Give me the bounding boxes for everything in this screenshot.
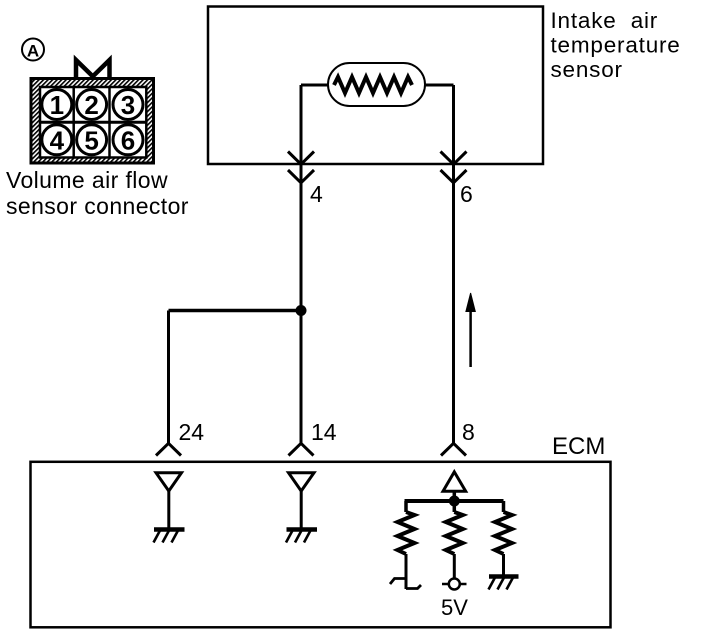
svg-text:temperature: temperature	[551, 33, 681, 58]
resistor R2 (middle)	[446, 501, 463, 579]
squiggle: to internal circuit	[390, 579, 421, 589]
svg-text:2: 2	[84, 90, 98, 120]
svg-text:6: 6	[460, 181, 473, 207]
connector shell (hatched border)	[31, 79, 154, 164]
pin 1	[42, 90, 72, 121]
connector key notch	[76, 60, 110, 79]
connector inner grid	[40, 87, 146, 158]
svg-text:5: 5	[84, 126, 98, 156]
svg-text:Intake air: Intake air	[551, 8, 659, 33]
pin 4	[42, 125, 72, 156]
node: junction dot on bus bar	[449, 496, 460, 507]
ECM pin 24 chevron	[156, 443, 181, 455]
svg-text:1: 1	[50, 90, 64, 120]
pin 5	[77, 125, 107, 156]
pin 2	[77, 90, 107, 121]
svg-text:Volume air flow: Volume air flow	[6, 167, 168, 193]
intake air temperature sensor box	[208, 7, 543, 165]
wire: branch vertical down to ECM pin 24	[167, 311, 170, 444]
thermistor (intake air temp sensor element)	[328, 63, 425, 106]
label: Volume air flow sensor connector	[6, 167, 189, 219]
svg-text:24: 24	[179, 419, 205, 445]
svg-text:ECM: ECM	[552, 433, 605, 460]
svg-text:4: 4	[50, 126, 65, 156]
label: Intake air temperature sensor	[551, 8, 681, 82]
wire: pin 4 vertical (sensor to ECM pin 14)	[300, 85, 303, 444]
ECM pin 8 chevron	[441, 443, 466, 455]
pin 6	[113, 125, 143, 156]
svg-text:A: A	[27, 42, 39, 61]
svg-text:3: 3	[121, 90, 135, 120]
node: junction dot on wire 4	[296, 305, 307, 316]
connector chevrons at sensor pin 4	[288, 152, 314, 183]
connector chevrons at sensor pin 6	[441, 152, 467, 183]
ground buffer triangle at pin 14	[289, 473, 315, 529]
signal direction arrow (up)	[466, 293, 475, 367]
5V supply terminal (circle)	[442, 579, 467, 590]
wire: oval to right pin 6	[420, 84, 454, 87]
connector label A (circled A)	[22, 39, 44, 61]
bus bar connecting pull-up resistors	[405, 499, 504, 503]
svg-text:6: 6	[121, 126, 135, 156]
svg-text:8: 8	[462, 419, 475, 445]
svg-text:14: 14	[311, 419, 337, 445]
ECM pin 14 chevron	[289, 443, 314, 455]
input buffer triangle at pin 8	[443, 472, 466, 501]
wire: pin 6 vertical (sensor to ECM pin 8)	[452, 85, 455, 444]
svg-text:5V: 5V	[441, 595, 468, 620]
chassis ground at R3	[489, 577, 519, 590]
ECM box	[31, 462, 611, 628]
ground buffer triangle at pin 24	[156, 473, 182, 529]
chassis ground at pin 24	[154, 530, 185, 543]
svg-text:4: 4	[310, 181, 323, 207]
resistor R3 (right)	[495, 501, 512, 576]
wire: oval to left pin 4	[301, 84, 335, 87]
svg-text:sensor connector: sensor connector	[6, 193, 189, 219]
resistor R1 (left)	[398, 501, 415, 589]
pin 3	[113, 90, 143, 121]
wire: branch horizontal to pin 24	[169, 309, 302, 313]
svg-text:sensor: sensor	[551, 57, 623, 82]
chassis ground at pin 14	[286, 530, 317, 543]
